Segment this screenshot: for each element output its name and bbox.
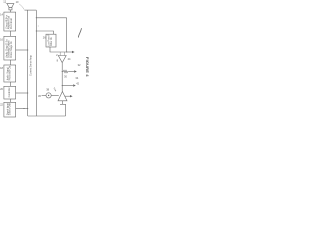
leader for label 12 — [6, 3, 8, 4]
box 22 rotated text — [6, 103, 11, 115]
box 16 rotated text — [5, 39, 12, 58]
svg-text:42: 42 — [76, 82, 79, 86]
svg-text:34: 34 — [75, 76, 78, 80]
current source CS1 — [46, 93, 51, 98]
node at bus B filter tap — [36, 30, 37, 31]
svg-text:8: 8 — [57, 59, 59, 63]
label 24 — [68, 57, 71, 61]
box 20 rotated text — [8, 87, 11, 97]
current source inner dot — [48, 95, 49, 96]
label 38 — [46, 87, 49, 91]
node mid box22 tap — [23, 108, 24, 109]
wire source to U2 — [51, 94, 59, 96]
label 20 — [0, 87, 3, 91]
label 36 — [38, 94, 41, 98]
wire box20 tap — [16, 92, 28, 94]
wire box18 to box20 — [9, 82, 11, 86]
wire U2 bottom stub — [62, 101, 64, 105]
wire feedback top — [36, 17, 66, 19]
node box22 tap — [27, 108, 28, 109]
label 34 — [75, 76, 78, 80]
tick mark near bus B — [37, 25, 40, 28]
wire bus C down — [66, 18, 68, 52]
label 12 — [3, 0, 6, 4]
label 26 — [43, 35, 46, 39]
node at bus B feedback — [36, 17, 37, 18]
svg-text:Driver Stage Ck: Driver Stage Ck — [10, 41, 13, 58]
wire box22 tap — [16, 108, 28, 110]
wire bus D — [65, 104, 67, 116]
svg-text:Controller: Controller — [8, 87, 11, 97]
box 26 rotated text — [49, 34, 53, 47]
label 14 — [0, 13, 3, 17]
box 18 processor — [4, 65, 16, 82]
svg-text:14: 14 — [0, 13, 3, 17]
label 40 — [54, 86, 56, 90]
wire box16 tap — [16, 49, 28, 51]
svg-text:24: 24 — [68, 57, 71, 61]
node resistor tap — [62, 71, 63, 72]
op-amp U2 — [58, 92, 67, 101]
box 20 converter — [4, 86, 16, 99]
arrowhead output 2 — [73, 84, 76, 86]
wire top rail — [25, 9, 37, 11]
label 16 — [0, 38, 3, 42]
leader for label 10 — [19, 4, 24, 10]
op-amp U1 input stubs — [60, 52, 64, 56]
wire to arrow 1 — [69, 71, 74, 73]
arrowhead sense output — [72, 51, 75, 53]
svg-text:10: 10 — [16, 0, 19, 4]
label 18 — [0, 66, 3, 70]
op-amp U1 — [58, 56, 66, 63]
figure caption — [85, 57, 90, 77]
wire source input — [42, 94, 46, 96]
label 42 — [76, 82, 79, 86]
svg-text:18: 18 — [0, 66, 3, 70]
box 26 filter — [46, 34, 56, 47]
wire mid output rail — [62, 85, 73, 87]
wire filter to comparator — [50, 47, 67, 52]
net label sense — [29, 54, 32, 76]
svg-text:16: 16 — [0, 38, 3, 42]
wire bottom rail — [28, 115, 66, 117]
arrowhead output 1 — [74, 70, 77, 72]
wire bus B to filter — [36, 31, 53, 34]
node box16 tap — [27, 49, 28, 50]
svg-text:Source Unit: Source Unit — [9, 103, 12, 115]
wire bus A — [27, 10, 29, 116]
label 22 — [0, 103, 3, 107]
svg-text:Put Circuit: Put Circuit — [10, 18, 13, 29]
svg-text:30: 30 — [64, 75, 67, 79]
wire box14 to box16 — [9, 31, 11, 36]
svg-text:Filter Ck: Filter Ck — [50, 36, 53, 45]
wire bus B — [35, 10, 37, 116]
svg-text:20: 20 — [0, 87, 3, 91]
tick bottom junction — [60, 103, 66, 105]
node mid rail junction — [62, 85, 63, 86]
label 10 — [16, 0, 19, 4]
box 16 output stage — [4, 36, 16, 60]
arrowhead output 3 — [70, 95, 73, 97]
box 14 rotated text — [5, 15, 12, 30]
svg-text:36: 36 — [38, 94, 41, 98]
wire U1 output down — [61, 63, 63, 92]
box 18 rotated text — [6, 66, 11, 81]
wire box20 to box22 — [9, 99, 11, 102]
svg-text:38: 38 — [46, 87, 49, 91]
label 32 — [78, 63, 81, 67]
node box20 tap — [27, 92, 28, 93]
wire speaker to box 14 — [9, 10, 11, 12]
svg-text:22: 22 — [0, 103, 3, 107]
wire U2 output — [65, 95, 70, 97]
leader curve 27 — [78, 28, 81, 37]
box 14 amplifier — [4, 12, 16, 31]
speaker LS — [7, 4, 14, 10]
svg-text:Processor Ckt: Processor Ckt — [9, 66, 12, 81]
label 28 — [56, 53, 59, 62]
svg-text:FIGURE 4: FIGURE 4 — [85, 57, 90, 77]
svg-text:32: 32 — [78, 63, 81, 67]
resistor R1 zigzag — [62, 70, 69, 73]
label 44 — [55, 89, 57, 93]
wire box16 to box18 — [9, 60, 11, 65]
wire sense output — [67, 51, 72, 53]
box 22 signal source — [4, 102, 16, 117]
svg-text:Current Sense Amp: Current Sense Amp — [29, 54, 32, 76]
node bus C joins input line — [66, 51, 67, 52]
label 30 — [64, 75, 67, 79]
